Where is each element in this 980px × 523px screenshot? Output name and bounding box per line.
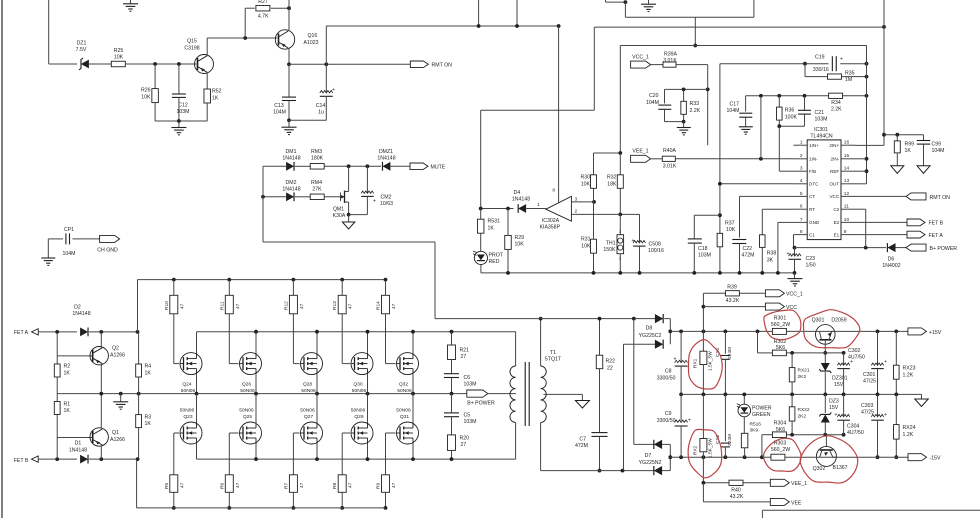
bottom right frame box — [762, 509, 980, 511]
svg-text:C17: C17 — [729, 102, 739, 108]
svg-text:C304: C304 — [847, 424, 860, 430]
wire primary center rail — [56, 394, 58, 402]
svg-text:4U7/50: 4U7/50 — [847, 430, 864, 436]
resistor R99 1K — [896, 135, 898, 141]
svg-text:3300/50: 3300/50 — [657, 375, 676, 381]
svg-text:RM4: RM4 — [311, 180, 322, 186]
svg-text:C8: C8 — [665, 369, 672, 375]
red loop around Q301 — [803, 310, 860, 348]
wire DZ1/R25 row — [49, 63, 77, 65]
ground under C17 — [739, 126, 753, 128]
wire drain bus B — [197, 458, 516, 460]
svg-text:R99: R99 — [905, 141, 915, 147]
wire Q16 collector to top edge — [288, 0, 290, 30]
TL494 pin 3 stub — [794, 170, 808, 172]
svg-text:R531: R531 — [488, 219, 501, 225]
svg-text:R26: R26 — [141, 88, 151, 94]
svg-text:B+ POWER: B+ POWER — [930, 246, 958, 252]
wire pin4 DTC run — [720, 183, 794, 185]
svg-text:10/63: 10/63 — [380, 201, 393, 207]
resistor R10 47 — [172, 278, 176, 282]
svg-text:CM2: CM2 — [381, 195, 392, 201]
svg-text:GREEN: GREEN — [752, 412, 771, 418]
svg-text:C303: C303 — [861, 403, 874, 409]
svg-text:R304: R304 — [774, 421, 787, 427]
TL494 pin 16 stub — [841, 144, 855, 146]
wire secondary mid rail — [681, 393, 921, 395]
svg-text:50N06: 50N06 — [396, 407, 411, 413]
wire Q31 drain down — [412, 444, 414, 459]
red loop around R301 — [764, 310, 801, 340]
wire R301 to Q301 — [786, 330, 816, 332]
svg-text:3K9: 3K9 — [750, 428, 759, 434]
wire gate lead Q25 — [229, 432, 238, 434]
svg-text:47/25: 47/25 — [863, 378, 876, 384]
svg-text:472M: 472M — [575, 443, 588, 449]
svg-text:1IN+: 1IN+ — [809, 143, 819, 148]
svg-text:FET A: FET A — [929, 233, 944, 239]
transformer T1 primary top lead — [515, 332, 517, 366]
node R27 left drop — [243, 36, 247, 40]
op-amp IC302A KIA358P — [546, 196, 572, 221]
svg-text:C3198: C3198 — [184, 46, 199, 52]
svg-text:R38: R38 — [767, 250, 777, 256]
flag +15V — [908, 328, 927, 335]
wire Q29 drain down — [367, 444, 369, 459]
resistor R40 43.2K — [729, 480, 743, 485]
svg-text:1K: 1K — [145, 421, 152, 427]
diode DMZ1 1N4148 — [382, 162, 390, 171]
wire Q28 source down — [316, 375, 318, 394]
svg-text:R8: R8 — [332, 483, 338, 489]
wire Q1 bottom — [100, 446, 102, 460]
svg-text:18K: 18K — [607, 181, 617, 187]
svg-text:B1367: B1367 — [832, 465, 847, 471]
svg-text:3.01K: 3.01K — [663, 163, 677, 169]
TL494 pin 10 stub — [841, 221, 855, 223]
svg-text:Q24: Q24 — [182, 381, 192, 387]
svg-text:C19: C19 — [815, 55, 825, 61]
svg-text:FET B: FET B — [14, 458, 29, 464]
wire VCC branch — [702, 305, 706, 309]
diode D8 lower — [655, 340, 663, 349]
svg-text:16: 16 — [844, 140, 850, 146]
svg-text:YG225C2: YG225C2 — [639, 333, 662, 339]
TL494 pin 14 stub — [841, 170, 855, 172]
svg-text:1u: 1u — [318, 110, 324, 116]
svg-text:RX24: RX24 — [903, 425, 916, 431]
svg-text:1.5K_5W: 1.5K_5W — [708, 351, 714, 371]
svg-text:C2: C2 — [833, 207, 839, 212]
wire gate lead Q31 — [386, 432, 396, 434]
svg-text:A1023: A1023 — [304, 40, 319, 46]
wire Q31 source up — [412, 394, 414, 422]
transistor QM1 K30A — [340, 193, 342, 202]
wire pin10 E2 to FET B flag — [855, 221, 907, 223]
MOSFET Q24 50N06 — [180, 353, 202, 375]
svg-text:Q26: Q26 — [242, 381, 252, 387]
resistor RX2 1.5K_5W — [702, 394, 704, 438]
svg-text:47: 47 — [348, 482, 354, 488]
TL494 pin 8 stub — [794, 234, 808, 236]
TL494 pin 2 stub — [794, 158, 808, 160]
svg-text:RED: RED — [489, 259, 500, 265]
svg-text:R20: R20 — [460, 436, 470, 442]
svg-text:C20: C20 — [649, 93, 659, 99]
wire Q29 source up — [367, 394, 369, 422]
svg-text:K30A: K30A — [333, 213, 346, 219]
svg-text:2K2: 2K2 — [798, 413, 807, 419]
MOSFET Q30 50N06 — [351, 353, 373, 375]
red loop around Q302 — [800, 436, 858, 483]
flag RMT ON left — [906, 193, 926, 200]
svg-text:1N4148: 1N4148 — [69, 447, 87, 453]
svg-text:1/50: 1/50 — [806, 263, 816, 269]
svg-text:103M: 103M — [698, 253, 711, 259]
TL494 pin 5 stub — [794, 195, 808, 197]
wire top right drop x884 to TL494 pin16 — [883, 0, 885, 145]
wire Q1 top to rail — [100, 394, 102, 429]
svg-text:C22: C22 — [743, 246, 753, 252]
svg-text:CT: CT — [809, 194, 815, 199]
capacitor C13 104M — [288, 64, 290, 97]
svg-text:+: + — [840, 57, 843, 63]
wire pin6 RT run — [762, 208, 793, 210]
node C14 top — [324, 62, 328, 66]
resistor RX1 1.5K_5W — [702, 331, 704, 351]
resistor R33 2.2K — [683, 89, 685, 101]
svg-text:1N4002: 1N4002 — [882, 263, 900, 269]
resistor R38 3K on RT — [761, 209, 763, 235]
svg-text:IC302A: IC302A — [542, 218, 560, 224]
svg-text:10K: 10K — [515, 242, 525, 248]
svg-text:10K: 10K — [581, 243, 591, 249]
wire y27 top to x884 — [594, 26, 884, 28]
wire gate bus B riser — [136, 459, 138, 508]
resistor R6 47 — [225, 475, 233, 493]
resistor R5 47 — [170, 475, 178, 493]
svg-text:224M: 224M — [727, 347, 733, 359]
svg-text:10K: 10K — [726, 227, 736, 233]
svg-text:VEE_1: VEE_1 — [632, 149, 648, 155]
wire Q27 drain down — [316, 444, 318, 459]
capacitor C303 47/25 — [877, 394, 879, 416]
svg-text:+: + — [632, 238, 635, 244]
svg-text:47: 47 — [235, 303, 241, 309]
wire MUTE drop to output area — [434, 242, 436, 319]
wire DM2 row — [263, 196, 286, 198]
svg-text:VEE: VEE — [791, 500, 802, 506]
svg-text:R1: R1 — [64, 401, 71, 407]
svg-text:-15V: -15V — [930, 456, 941, 462]
flag B+ POWER left — [906, 244, 926, 251]
flag VCC_1 output — [765, 290, 784, 297]
capacitor C21 103M — [804, 96, 806, 111]
transformer T1 secondary top lead — [540, 319, 542, 366]
svg-text:1N4148: 1N4148 — [282, 187, 300, 193]
svg-text:11: 11 — [844, 204, 849, 210]
open arrow ground under QM1 — [348, 215, 350, 222]
transformer T1 primary winding — [510, 366, 516, 422]
svg-text:2IN+: 2IN+ — [829, 143, 839, 148]
resistor RM4 27K — [310, 194, 324, 200]
svg-text:R31: R31 — [581, 237, 591, 243]
wire D8 lower anode — [624, 343, 656, 345]
resistor R8 47 — [338, 475, 346, 493]
wire Q27 source up — [316, 394, 318, 422]
svg-text:C7: C7 — [579, 436, 586, 442]
svg-text:R30: R30 — [580, 175, 590, 181]
wire Q2 collector — [100, 332, 102, 347]
svg-text:D4: D4 — [514, 190, 521, 196]
svg-text:VEE_1: VEE_1 — [791, 481, 807, 487]
resistor R22 22 — [599, 319, 601, 356]
svg-text:C5: C5 — [464, 413, 471, 419]
svg-text:10K: 10K — [114, 55, 124, 61]
svg-text:DZ1: DZ1 — [77, 41, 87, 47]
transistor Q1 A1266 — [90, 428, 108, 446]
resistor R531 1K — [480, 209, 482, 220]
wire MUTE left vertical — [262, 166, 264, 242]
op-amp pin8 supply from top — [558, 26, 560, 203]
mirror: resistor R304 5K6 row — [761, 435, 763, 458]
svg-text:15V: 15V — [834, 382, 844, 388]
wire Q25 drain down — [255, 444, 257, 459]
thermistor TH1 150K — [617, 235, 624, 254]
transistor Q16 A1023 — [275, 30, 294, 49]
node x558 y26 — [557, 24, 561, 28]
wire RM3 to DMZ1 — [324, 165, 381, 167]
svg-text:10K: 10K — [581, 181, 591, 187]
zener DZ3 15V — [824, 394, 826, 413]
svg-text:C302: C302 — [848, 348, 861, 354]
ground under CP1 — [47, 239, 49, 258]
svg-text:330/16: 330/16 — [813, 67, 829, 73]
wire pin5 CT run — [740, 195, 794, 197]
svg-text:2.2K: 2.2K — [690, 108, 701, 114]
MOSFET Q31 50N06 — [397, 422, 419, 444]
wire top-left vertical into DZ1 node — [48, 0, 50, 64]
capacitor C99 104M — [923, 135, 925, 140]
svg-text:R22: R22 — [606, 359, 616, 365]
svg-text:OUT: OUT — [829, 182, 839, 187]
open arrow under R99 — [891, 166, 904, 174]
svg-text:R10: R10 — [164, 301, 170, 310]
transformer T1 secondary bottom lead — [540, 423, 542, 471]
red loop around RX2 — [688, 429, 722, 478]
resistor R35 1M — [804, 64, 806, 77]
svg-text:C301: C301 — [863, 372, 876, 378]
wire pin9 E1 to FET A flag — [855, 234, 907, 236]
svg-text:PROT: PROT — [489, 253, 504, 259]
svg-text:+: + — [674, 357, 677, 363]
ground arrow mid rail right end — [921, 394, 923, 399]
resistor R32 18K column — [619, 153, 621, 175]
wire Q28 drain up — [316, 332, 318, 353]
MOSFET Q27 50N06 — [301, 422, 323, 444]
capacitor C7 472M — [592, 432, 608, 434]
wire pin3 wire — [779, 170, 793, 172]
svg-text:8: 8 — [552, 188, 555, 194]
wire staircase down to D4 node — [480, 110, 482, 208]
svg-text:RX21: RX21 — [798, 368, 810, 374]
resistor R1 1K — [56, 415, 58, 438]
svg-text:R39A: R39A — [664, 52, 678, 58]
wire C20/R33 top — [665, 88, 708, 90]
MOSFET Q32 50N06 — [397, 353, 419, 375]
svg-text:C508: C508 — [649, 241, 662, 247]
svg-text:1.2K: 1.2K — [903, 432, 914, 438]
wire staircase top — [593, 27, 595, 110]
svg-text:1: 1 — [800, 140, 803, 146]
capacitor C302 4U7/50 — [843, 353, 845, 365]
wire QM1 source row — [349, 214, 368, 216]
node C12 top — [177, 62, 181, 66]
wire secondary top row — [435, 318, 655, 320]
wire feedback top y45 — [620, 45, 866, 47]
capacitor C5 103M — [451, 394, 453, 413]
svg-text:R12: R12 — [283, 301, 289, 310]
svg-text:C1: C1 — [809, 232, 815, 237]
wire R36/C21 bottom to pin3 riser — [779, 125, 804, 127]
svg-text:Q1: Q1 — [112, 430, 119, 436]
resistor R31 10K — [591, 239, 597, 253]
open arrow secondary center — [575, 401, 589, 409]
svg-text:47/25: 47/25 — [861, 409, 874, 415]
svg-text:Q31: Q31 — [400, 414, 410, 420]
svg-text:+: + — [373, 199, 376, 205]
wire B+ POWER row from C1 — [795, 247, 887, 249]
diode DM2 1N4148 — [286, 192, 294, 201]
ground under C23 — [794, 273, 796, 279]
svg-text:43.2K: 43.2K — [730, 494, 744, 500]
svg-text:R27: R27 — [258, 0, 268, 5]
LED PROT RED — [474, 251, 487, 264]
wire gate lead Q30 — [342, 363, 350, 365]
wire gate bus A — [138, 279, 386, 281]
capacitor C19 330/16 — [720, 63, 805, 65]
capacitor C18 103M — [693, 215, 695, 239]
svg-text:2: 2 — [800, 153, 803, 159]
MOSFET Q26 50N06 — [240, 353, 262, 375]
wire R99/C99 branch — [884, 134, 924, 136]
resistor R27 4.7K — [256, 5, 270, 11]
diode D6 1N4002 — [887, 243, 895, 252]
svg-text:104M: 104M — [273, 109, 286, 115]
capacitor C22 472M on CT — [739, 196, 741, 237]
svg-text:4.7K: 4.7K — [258, 14, 269, 20]
svg-text:Q302: Q302 — [813, 466, 826, 472]
svg-text:100K: 100K — [785, 114, 798, 120]
svg-text:+: + — [688, 418, 691, 424]
svg-text:4: 4 — [800, 178, 803, 184]
svg-text:180K: 180K — [311, 156, 324, 162]
svg-text:RX1: RX1 — [692, 358, 698, 368]
svg-text:CH GND: CH GND — [97, 248, 118, 254]
svg-text:47: 47 — [179, 482, 185, 488]
wire R25 to Q15 base — [125, 63, 196, 65]
svg-text:R9: R9 — [376, 483, 382, 489]
wire pin11 C2 drop — [855, 208, 866, 210]
capacitor C14 1u polarized — [325, 64, 327, 92]
flag FET A right — [907, 231, 925, 238]
svg-text:103M: 103M — [464, 382, 477, 388]
svg-text:C23: C23 — [806, 256, 816, 262]
ground in top box — [648, 0, 650, 4]
svg-text:50N06: 50N06 — [239, 407, 254, 413]
svg-text:150K: 150K — [603, 247, 616, 253]
svg-text:Q2: Q2 — [112, 346, 119, 352]
svg-text:VCC_1: VCC_1 — [632, 54, 649, 60]
svg-text:R35: R35 — [845, 71, 855, 77]
svg-text:+: + — [884, 412, 887, 418]
svg-text:R6: R6 — [219, 483, 225, 489]
capacitor CX1 224M — [724, 331, 726, 353]
svg-text:27: 27 — [461, 442, 467, 448]
svg-text:50N06: 50N06 — [181, 388, 196, 394]
svg-text:7.5V: 7.5V — [76, 47, 87, 53]
svg-text:12: 12 — [844, 191, 850, 197]
svg-text:DZ3: DZ3 — [829, 398, 839, 404]
wire R30/R32 top link — [594, 152, 621, 154]
resistor R36 100K — [778, 96, 780, 107]
resistor R30 10K column — [593, 153, 595, 175]
svg-text:R516: R516 — [750, 422, 762, 428]
LED POWER GREEN — [743, 394, 745, 404]
TL494 pin 15 stub — [841, 158, 855, 160]
svg-text:C6: C6 — [464, 375, 471, 381]
TL494 pin 12 stub — [841, 195, 855, 197]
resistor R302 5K6 — [772, 350, 786, 356]
svg-text:1K: 1K — [145, 371, 152, 377]
MOSFET Q25 50N06 — [240, 422, 262, 444]
resistor R26 10K — [154, 64, 156, 89]
transformer T1 core — [524, 362, 526, 426]
svg-text:14: 14 — [844, 166, 850, 172]
svg-text:104M: 104M — [63, 251, 76, 257]
resistor R13 47 — [340, 278, 344, 282]
ground on center rail — [120, 394, 122, 402]
wire C18 branch — [694, 214, 720, 216]
svg-text:1N4148: 1N4148 — [512, 197, 530, 203]
svg-text:Q29: Q29 — [354, 414, 364, 420]
wire top link C14 node up — [325, 26, 327, 64]
svg-text:C9: C9 — [665, 411, 672, 417]
flag MUTE — [410, 163, 428, 170]
wire RMT ON row — [289, 63, 410, 65]
svg-text:10K: 10K — [141, 95, 151, 101]
svg-text:+15V: +15V — [929, 330, 942, 336]
svg-text:RX22: RX22 — [798, 407, 810, 413]
svg-text:D1: D1 — [75, 441, 82, 447]
wire D8 output corner — [664, 318, 670, 320]
zener DZ301 15V — [824, 353, 826, 363]
wire pin15/14/13 tie — [855, 158, 867, 160]
svg-text:5: 5 — [800, 191, 803, 197]
capacitor C6 103M — [444, 373, 459, 375]
svg-text:IC301: IC301 — [814, 127, 828, 133]
svg-text:R34: R34 — [831, 100, 841, 106]
svg-text:47: 47 — [299, 303, 305, 309]
svg-text:104M: 104M — [646, 100, 659, 106]
svg-text:C13: C13 — [274, 103, 284, 109]
svg-text:3300/50: 3300/50 — [657, 418, 676, 424]
svg-text:50N06: 50N06 — [240, 388, 255, 394]
svg-text:43.2K: 43.2K — [726, 298, 740, 304]
svg-text:2: 2 — [575, 209, 578, 215]
svg-text:+: + — [332, 87, 335, 93]
svg-text:Q23: Q23 — [183, 414, 193, 420]
